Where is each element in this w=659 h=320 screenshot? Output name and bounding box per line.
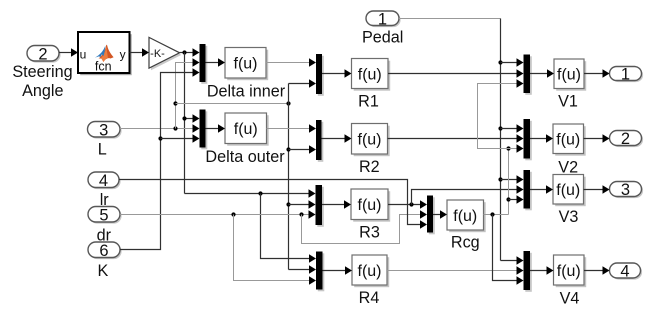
svg-text:u: u — [80, 47, 87, 61]
junction L right branch — [173, 101, 177, 105]
svg-text:2: 2 — [38, 45, 47, 63]
junction Rcg V2 — [506, 146, 510, 150]
wire mux M10 to V3 — [530, 185, 553, 193]
junction L at vertical 288 — [286, 101, 290, 105]
wire mux M2 to Delta outer — [206, 124, 226, 132]
wire Rcg to mux M9 V2 in3 — [509, 144, 524, 152]
junction delta R4 branch — [258, 191, 262, 195]
MATLAB function block fcn — [78, 32, 132, 75]
wire Rcg left branch to mux M8 V1 in3 — [478, 79, 524, 148]
junction Rcg out — [490, 212, 494, 216]
junction Pedal V1 — [498, 60, 502, 64]
fcn block V1 — [554, 59, 586, 110]
svg-text:V1: V1 — [558, 92, 578, 110]
junction R3 out — [409, 202, 413, 206]
wire L to mux M6 R4 in2 — [289, 265, 317, 273]
junction dr Rcg branch — [299, 212, 303, 216]
wire Rcg to mux M10 V3 in3 — [509, 195, 524, 203]
wire V3 to outport 3 — [584, 185, 610, 193]
fcn block R2 — [352, 124, 390, 177]
wire V1 to outport 1 — [584, 69, 610, 77]
wire L to mux M4 R2 in2 — [289, 145, 317, 153]
svg-text:f(u): f(u) — [557, 67, 581, 84]
svg-text:f(u): f(u) — [556, 132, 580, 149]
wire mux M6 to R4 — [323, 266, 353, 274]
wire Delta inner out to mux M3 R1 in1 — [266, 58, 316, 66]
wire fcn to gain — [130, 48, 150, 56]
svg-text:1: 1 — [378, 10, 387, 28]
junction L R3 — [286, 202, 290, 206]
inport 1 Pedal — [362, 10, 403, 46]
mux M10 (V3) — [524, 170, 532, 210]
outport 2 — [610, 130, 644, 148]
wire L vertical 288 — [288, 84, 290, 270]
wire delta to mux M6 R4 in1 — [261, 194, 317, 263]
wire Rcg out — [484, 214, 509, 216]
mux M7 (Rcg) — [427, 196, 435, 235]
wire port2 to fcn — [59, 48, 78, 56]
wire R3 out to mux M7 Rcg in1 — [388, 200, 427, 208]
svg-text:f(u): f(u) — [234, 121, 258, 138]
junction K mux M2 — [158, 136, 162, 140]
wire mux M9 to V2 — [530, 134, 553, 142]
wire L up to mux M1 in2 — [176, 58, 200, 128]
svg-text:Angle: Angle — [22, 82, 63, 100]
wire Pedal to mux M9 V2 in1 — [501, 124, 524, 132]
mux M6 (R4) — [316, 252, 324, 292]
wire Pedal to mux M11 V4 in1 — [501, 256, 524, 264]
junction Rcg V3 — [506, 197, 510, 201]
wire Pedal vertical — [500, 19, 502, 261]
fcn block R4 — [352, 255, 389, 307]
junction Pedal V2 — [498, 126, 502, 130]
wire Rcg down to mux M11 V4 in3 — [493, 215, 524, 285]
svg-text:4: 4 — [620, 263, 629, 281]
outport 4 — [610, 263, 643, 281]
svg-text:Delta outer: Delta outer — [205, 148, 285, 166]
wire V2 to outport 2 — [584, 134, 610, 142]
gain block -K- — [149, 37, 181, 70]
outport 3 — [610, 181, 644, 199]
wire mux M1 to Delta inner — [206, 58, 226, 66]
wire L to mux M3 R1 in2 — [289, 79, 317, 87]
junction L vertical — [173, 126, 177, 130]
svg-text:4: 4 — [99, 172, 108, 190]
outport 1 — [610, 66, 644, 84]
mux M8 (V1) — [524, 55, 532, 95]
mux M3 (R1) — [316, 54, 324, 96]
wire R1 out to mux M8 V1 in2 — [388, 69, 524, 77]
wire R3 out to mux M10 V3 in2 — [412, 185, 524, 204]
fcn block Rcg — [447, 200, 486, 252]
wire lr from port4 to mux M7 Rcg in3 — [119, 180, 427, 229]
svg-text:f(u): f(u) — [358, 66, 382, 83]
wire L branch right — [176, 103, 289, 105]
svg-text:f(u): f(u) — [358, 263, 382, 280]
svg-text:V4: V4 — [560, 289, 580, 307]
mux M5 (R3) — [316, 185, 324, 227]
junction Pedal V3 — [498, 177, 502, 181]
mux M1 (Delta inner) — [200, 44, 208, 84]
mux M9 (V2) — [524, 119, 532, 160]
svg-text:Pedal: Pedal — [362, 29, 403, 47]
wire mux M3 to R1 — [322, 69, 352, 77]
inport 3 L — [88, 121, 122, 158]
inport 4 lr — [88, 172, 121, 209]
wire K to mux M2 in3 — [161, 134, 200, 142]
svg-text:V3: V3 — [559, 208, 579, 226]
svg-text:f(u): f(u) — [556, 182, 580, 199]
svg-text:R1: R1 — [358, 93, 379, 111]
wire Pedal to mux M8 V1 in1 — [501, 58, 524, 66]
svg-text:f(u): f(u) — [557, 263, 581, 280]
wire mux M4 to R2 — [322, 134, 352, 142]
wire mux M7 to Rcg — [433, 210, 447, 218]
svg-text:Rcg: Rcg — [451, 234, 480, 252]
svg-text:Steering: Steering — [12, 63, 72, 81]
fcn block R3 — [351, 189, 390, 241]
mux M11 (V4) — [524, 251, 532, 292]
wire gain to mux M1 in1 — [180, 48, 200, 56]
wire mux M11 to V4 — [530, 266, 554, 274]
svg-text:2: 2 — [621, 130, 630, 148]
svg-text:5: 5 — [99, 206, 108, 224]
wire Pedal horizontal — [399, 18, 501, 20]
svg-text:R2: R2 — [359, 158, 380, 176]
junction delta mux M2 — [182, 116, 186, 120]
wire V4 to outport 4 — [584, 266, 610, 274]
svg-text:f(u): f(u) — [358, 197, 382, 214]
inport 5 dr — [88, 206, 122, 244]
svg-text:L: L — [98, 141, 107, 159]
svg-text:-K-: -K- — [150, 48, 165, 60]
svg-text:K: K — [97, 262, 108, 280]
wire dr to mux M6 R4 in3 — [234, 215, 317, 285]
wire Delta outer out to mux M4 R2 in1 — [267, 124, 317, 132]
wire delta to mux M5 R3 in1 — [185, 189, 316, 197]
mux M4 (R2) — [316, 120, 323, 162]
svg-text:3: 3 — [99, 121, 108, 139]
wire dr from port5 to mux M5 R3 in3 — [120, 210, 316, 218]
svg-text:1: 1 — [621, 66, 630, 84]
wire L from port3 — [120, 124, 200, 132]
svg-text:R3: R3 — [359, 223, 380, 241]
svg-text:Delta inner: Delta inner — [207, 83, 286, 101]
fcn block V3 — [553, 175, 586, 227]
svg-text:f(u): f(u) — [453, 208, 477, 225]
svg-text:y: y — [120, 47, 126, 61]
wire R2 out to mux M9 V2 in2 — [388, 134, 524, 142]
svg-text:f(u): f(u) — [234, 56, 258, 73]
fcn block R1 — [352, 59, 391, 111]
svg-text:V2: V2 — [558, 158, 578, 176]
junction delta at gain output — [182, 50, 186, 54]
wire Rcg up vertical — [508, 149, 510, 215]
mux M2 (Delta outer) — [200, 110, 208, 150]
junction L R2 — [286, 147, 290, 151]
wire mux M8 to V1 — [530, 69, 554, 77]
wire delta down branch — [184, 53, 186, 194]
inport 2 Steering Angle — [12, 45, 72, 100]
wire L to mux M5 R3 in2 — [289, 200, 316, 208]
svg-text:R4: R4 — [359, 289, 380, 307]
wire mux M5 to R3 — [322, 200, 351, 208]
svg-text:6: 6 — [99, 242, 108, 260]
inport 6 K — [88, 242, 122, 280]
wire delta to mux M2 in1 — [185, 114, 200, 122]
wire dr detour to mux M7 Rcg in2 — [302, 210, 428, 243]
fcn block V2 — [553, 124, 586, 176]
wire Pedal to mux M10 V3 in1 — [501, 175, 524, 183]
fcn block V4 — [554, 255, 587, 307]
wire R4 out to mux M11 V4 in2 — [387, 266, 524, 274]
junction dr R4 branch — [231, 212, 235, 216]
svg-text:f(u): f(u) — [358, 132, 382, 149]
fcn block Delta outer — [205, 113, 285, 166]
fcn block Delta inner — [207, 48, 286, 101]
wire K from port6 — [120, 68, 200, 249]
svg-text:3: 3 — [621, 181, 630, 199]
